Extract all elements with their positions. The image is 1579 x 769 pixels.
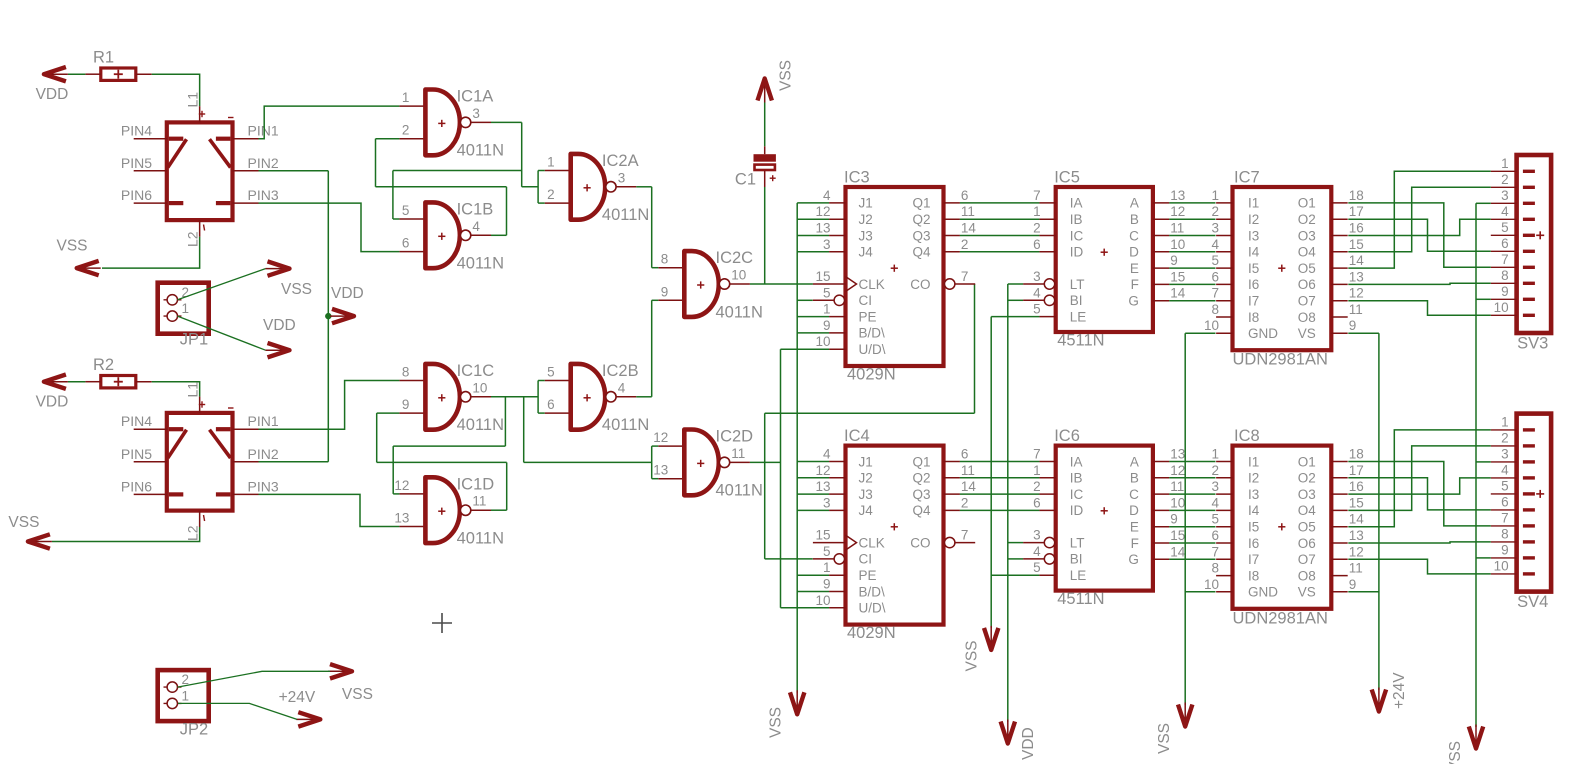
svg-text:I6: I6 [1248, 536, 1259, 551]
svg-text:7: 7 [1211, 544, 1219, 559]
svg-text:I5: I5 [1248, 261, 1259, 276]
supply VSS arrow (upper L2) [57, 238, 101, 276]
junction VDD [325, 313, 331, 319]
svg-text:13: 13 [653, 463, 668, 478]
svg-text:VDD: VDD [263, 317, 296, 334]
svg-text:D: D [1129, 245, 1139, 260]
wire VDD to R1 [68, 73, 85, 75]
svg-text:I1: I1 [1248, 196, 1259, 211]
svg-text:10: 10 [1204, 318, 1219, 333]
wire net IC2B out to IC2C pin9 [636, 300, 658, 397]
supply VSS arrow (above C1) [758, 60, 795, 103]
svg-text:17: 17 [1349, 463, 1364, 478]
svg-text:O2: O2 [1298, 471, 1316, 486]
svg-text:UDN2981AN: UDN2981AN [1233, 351, 1328, 369]
svg-text:12: 12 [394, 478, 409, 493]
svg-text:4029N: 4029N [847, 366, 896, 384]
resistor R1 [85, 48, 151, 80]
supply VSS arrow (lower L2) [8, 514, 52, 549]
svg-text:IC2C: IC2C [716, 249, 754, 267]
svg-text:O4: O4 [1298, 503, 1317, 518]
svg-text:15: 15 [1170, 269, 1185, 284]
svg-text:11: 11 [472, 494, 486, 509]
wire VDD to R2 [68, 381, 85, 383]
svg-text:6: 6 [402, 236, 410, 251]
svg-text:7: 7 [1033, 447, 1041, 462]
svg-text:E: E [1130, 520, 1139, 535]
svg-text:13: 13 [394, 511, 409, 526]
wire JP2 pin2 to VSS [178, 671, 331, 687]
svg-text:16: 16 [1349, 221, 1364, 236]
svg-text:12: 12 [1349, 544, 1364, 559]
svg-text:15: 15 [1349, 237, 1364, 252]
svg-text:L1: L1 [185, 92, 201, 108]
svg-text:IC3: IC3 [844, 169, 870, 187]
svg-text:6: 6 [1033, 495, 1041, 510]
svg-text:O5: O5 [1298, 261, 1316, 276]
svg-text:3: 3 [823, 237, 831, 252]
svg-text:2: 2 [1033, 221, 1041, 236]
svg-text:O1: O1 [1298, 454, 1316, 469]
svg-text:4011N: 4011N [602, 416, 649, 434]
svg-text:4: 4 [618, 380, 626, 395]
svg-text:1: 1 [1501, 414, 1509, 429]
svg-text:4: 4 [1501, 204, 1509, 219]
svg-text:7: 7 [1211, 286, 1219, 301]
svg-text:F: F [1131, 277, 1139, 292]
svg-text:J3: J3 [859, 487, 873, 502]
svg-text:6: 6 [547, 397, 555, 412]
svg-text:D: D [1129, 503, 1139, 518]
wire net GND (IC7/IC8) to VSS [1185, 333, 1215, 705]
svg-text:L1: L1 [185, 382, 201, 398]
svg-text:6: 6 [1211, 269, 1219, 284]
svg-text:ID: ID [1070, 503, 1084, 518]
svg-text:IB: IB [1070, 471, 1083, 486]
connector JP2 [158, 670, 209, 738]
svg-text:1: 1 [823, 560, 831, 575]
svg-text:IC6: IC6 [1054, 427, 1080, 445]
svg-text:2: 2 [1033, 479, 1041, 494]
svg-text:B/D\: B/D\ [859, 326, 886, 341]
svg-text:12: 12 [1170, 204, 1185, 219]
svg-text:U/D\: U/D\ [859, 601, 886, 616]
supply +24V arrow (JP2 pin1) [279, 689, 321, 727]
connector JP1 [158, 283, 209, 349]
svg-text:13: 13 [1349, 269, 1364, 284]
svg-text:4: 4 [1501, 462, 1509, 477]
svg-text:L2: L2 [185, 525, 201, 541]
svg-text:PIN5: PIN5 [121, 446, 152, 462]
svg-text:3: 3 [1501, 446, 1509, 461]
svg-text:9: 9 [823, 577, 831, 592]
wire net LE to VSS [991, 317, 1039, 628]
svg-text:2: 2 [961, 237, 969, 252]
svg-text:IC4: IC4 [844, 427, 870, 445]
svg-text:5: 5 [1501, 220, 1509, 235]
svg-text:PIN2: PIN2 [248, 446, 279, 462]
svg-text:I6: I6 [1248, 277, 1259, 292]
svg-text:I3: I3 [1248, 228, 1259, 243]
svg-text:O2: O2 [1298, 212, 1316, 227]
svg-text:13: 13 [1170, 188, 1185, 203]
svg-text:UDN2981AN: UDN2981AN [1233, 609, 1328, 627]
nand gate IC1A [399, 88, 504, 160]
svg-text:8: 8 [1501, 526, 1509, 541]
svg-text:VSS: VSS [1447, 741, 1464, 764]
svg-text:O4: O4 [1298, 245, 1317, 260]
stepper coil block L1/L2 (lower) [121, 382, 279, 541]
svg-text:J2: J2 [859, 471, 873, 486]
supply VDD arrow (mid) [330, 285, 364, 323]
wire net IC1C out to IC1D pin12, IC2B and IC2D inputs [393, 381, 658, 494]
svg-text:11: 11 [961, 204, 975, 219]
svg-text:4011N: 4011N [716, 303, 763, 321]
svg-text:14: 14 [961, 479, 977, 494]
svg-text:5: 5 [823, 285, 831, 300]
svg-text:6: 6 [1033, 237, 1041, 252]
svg-text:IC2B: IC2B [602, 362, 639, 380]
nand gate IC2C [658, 249, 763, 321]
svg-text:I1: I1 [1248, 454, 1259, 469]
svg-text:8: 8 [1501, 268, 1509, 283]
svg-text:10: 10 [1494, 300, 1509, 315]
svg-text:C: C [1129, 228, 1139, 243]
supply VSS arrow (GND net) [1156, 703, 1192, 755]
svg-text:+24V: +24V [279, 689, 316, 706]
supply VDD arrow (LT/BI net) [1001, 720, 1037, 761]
svg-text:3: 3 [1211, 221, 1219, 236]
svg-text:10: 10 [1204, 577, 1219, 592]
wire lower PIN3 to IC1D pin13 [259, 494, 400, 526]
svg-text:IC5: IC5 [1054, 169, 1080, 187]
svg-text:9: 9 [1170, 512, 1178, 527]
wire net VS (IC7/IC8) to +24V [1348, 333, 1379, 690]
svg-text:JP1: JP1 [180, 331, 208, 349]
svg-text:J4: J4 [859, 245, 874, 260]
svg-text:11: 11 [961, 463, 975, 478]
svg-text:R2: R2 [93, 356, 114, 374]
svg-text:PIN4: PIN4 [121, 123, 152, 139]
svg-text:VSS: VSS [778, 60, 795, 91]
svg-text:6: 6 [1501, 494, 1509, 509]
svg-text:I8: I8 [1248, 568, 1259, 583]
decoder IC6 (4511N) [1023, 427, 1186, 608]
svg-text:18: 18 [1349, 447, 1364, 462]
supply VSS arrow (SV ground net) [1447, 725, 1483, 769]
svg-text:VS: VS [1298, 585, 1316, 600]
svg-text:5: 5 [1211, 512, 1219, 527]
svg-text:Q3: Q3 [912, 228, 930, 243]
svg-text:1: 1 [1033, 204, 1041, 219]
svg-text:IC1A: IC1A [457, 88, 494, 106]
wire R1 to L1 top pin [152, 74, 200, 106]
svg-text:VSS: VSS [964, 640, 981, 671]
svg-text:VSS: VSS [281, 281, 312, 298]
nand gate IC1C [399, 362, 504, 434]
svg-text:4029N: 4029N [847, 624, 896, 642]
svg-text:2: 2 [1211, 463, 1219, 478]
svg-text:CLK: CLK [859, 277, 885, 292]
svg-text:2: 2 [961, 495, 969, 510]
supply VSS arrow (below bus) [768, 690, 805, 738]
nand gate IC2B [545, 362, 650, 434]
connector SV3 [1491, 155, 1551, 353]
svg-text:3: 3 [1033, 269, 1041, 284]
svg-text:15: 15 [815, 269, 830, 284]
svg-text:PE: PE [859, 568, 877, 583]
svg-text:5: 5 [547, 365, 555, 380]
wire IC3 Q1-Q4 to IC5 inputs [960, 203, 1040, 252]
nand gate IC2A [545, 152, 650, 224]
wire net VSS bus (J/PE/BD/CI rows) [797, 203, 829, 693]
wire JP1 pin2 to VSS [178, 269, 266, 300]
svg-text:9: 9 [1501, 284, 1509, 299]
svg-text:LE: LE [1070, 568, 1087, 583]
stepper coil block L1/L2 (upper) [121, 92, 279, 247]
wire net IC1B out to IC1A pin2 [376, 139, 507, 236]
wire lower L2 to VSS [52, 527, 200, 542]
nand gate IC2D [653, 428, 763, 500]
svg-text:10: 10 [731, 268, 746, 283]
svg-text:4011N: 4011N [457, 255, 504, 273]
svg-text:9: 9 [1349, 318, 1357, 333]
svg-text:CI: CI [859, 552, 873, 567]
svg-text:B/D\: B/D\ [859, 584, 886, 599]
svg-text:4: 4 [1033, 544, 1041, 559]
svg-text:3: 3 [1211, 479, 1219, 494]
svg-text:J1: J1 [859, 196, 873, 211]
svg-text:IB: IB [1070, 212, 1083, 227]
connector SV4 [1491, 414, 1551, 611]
svg-text:O7: O7 [1298, 552, 1316, 567]
svg-text:4511N: 4511N [1057, 332, 1104, 350]
svg-text:4011N: 4011N [457, 416, 504, 434]
wire JP1 pin1 to VDD [178, 316, 266, 350]
wire IC4 Q1-Q4 to IC6 inputs [960, 462, 1040, 511]
svg-text:Q3: Q3 [912, 487, 930, 502]
svg-text:13: 13 [1349, 528, 1364, 543]
svg-text:12: 12 [815, 463, 830, 478]
svg-text:I8: I8 [1248, 310, 1259, 325]
svg-text:IA: IA [1070, 196, 1083, 211]
svg-text:O8: O8 [1298, 568, 1316, 583]
svg-text:3: 3 [823, 495, 831, 510]
svg-text:O8: O8 [1298, 310, 1316, 325]
svg-text:4: 4 [823, 447, 831, 462]
svg-text:13: 13 [815, 221, 830, 236]
svg-text:CI: CI [859, 293, 873, 308]
svg-text:9: 9 [402, 397, 410, 412]
svg-text:J1: J1 [859, 454, 873, 469]
svg-text:PIN3: PIN3 [248, 187, 279, 203]
svg-text:4: 4 [472, 219, 480, 234]
svg-text:5: 5 [1211, 253, 1219, 268]
svg-text:PIN3: PIN3 [248, 478, 279, 494]
wire net VSS long vertical to SV pins 3/9 [1476, 203, 1491, 727]
svg-text:8: 8 [402, 365, 410, 380]
svg-text:1: 1 [182, 301, 190, 316]
svg-text:4011N: 4011N [457, 142, 504, 160]
wire net IC1D out to IC1C pin9 [377, 413, 507, 510]
supply +24V arrow (VS net) [1372, 672, 1408, 712]
svg-text:O3: O3 [1298, 487, 1316, 502]
svg-text:4011N: 4011N [457, 530, 504, 548]
svg-text:IC8: IC8 [1234, 427, 1260, 445]
svg-text:A: A [1130, 196, 1139, 211]
wire net LT/BI to VDD [1008, 284, 1023, 722]
svg-text:VDD: VDD [36, 394, 69, 411]
svg-text:6: 6 [1211, 528, 1219, 543]
svg-text:O6: O6 [1298, 536, 1316, 551]
svg-text:PIN4: PIN4 [121, 413, 152, 429]
svg-text:O1: O1 [1298, 196, 1316, 211]
wire IC8 outputs to SV4 [1348, 430, 1491, 574]
svg-text:IC2D: IC2D [716, 428, 754, 446]
svg-text:Q2: Q2 [912, 471, 930, 486]
wire R2 to lower L1 top pin [152, 382, 200, 397]
svg-text:J4: J4 [859, 503, 874, 518]
svg-text:O3: O3 [1298, 228, 1316, 243]
svg-text:O7: O7 [1298, 294, 1316, 309]
svg-text:PIN6: PIN6 [121, 187, 152, 203]
svg-text:Q1: Q1 [912, 454, 930, 469]
svg-text:U/D\: U/D\ [859, 342, 886, 357]
svg-text:1: 1 [182, 688, 190, 703]
svg-text:PIN1: PIN1 [248, 123, 279, 139]
svg-text:9: 9 [1170, 253, 1178, 268]
svg-text:2: 2 [1211, 204, 1219, 219]
svg-text:IC1D: IC1D [457, 475, 495, 493]
svg-text:I2: I2 [1248, 471, 1259, 486]
svg-text:L2: L2 [185, 231, 201, 247]
svg-text:6: 6 [1501, 236, 1509, 251]
svg-text:C1: C1 [735, 170, 756, 188]
svg-text:10: 10 [1494, 558, 1509, 573]
svg-text:7: 7 [1501, 252, 1509, 267]
svg-text:12: 12 [1170, 463, 1185, 478]
svg-text:14: 14 [1170, 286, 1186, 301]
svg-text:9: 9 [823, 318, 831, 333]
svg-text:15: 15 [815, 528, 830, 543]
svg-text:ID: ID [1070, 245, 1084, 260]
svg-text:Q4: Q4 [912, 245, 931, 260]
svg-text:1: 1 [1501, 156, 1509, 171]
svg-text:10: 10 [815, 334, 830, 349]
svg-text:CO: CO [910, 277, 930, 292]
svg-text:4: 4 [1033, 285, 1041, 300]
svg-text:9: 9 [1349, 577, 1357, 592]
svg-text:I7: I7 [1248, 552, 1259, 567]
svg-text:IC: IC [1070, 487, 1084, 502]
svg-text:9: 9 [1501, 542, 1509, 557]
svg-text:10: 10 [1170, 495, 1185, 510]
resistor R2 [85, 356, 151, 388]
driver IC8 (UDN2981AN) [1204, 427, 1364, 627]
svg-text:LT: LT [1070, 535, 1085, 550]
svg-text:IC2A: IC2A [602, 152, 639, 170]
svg-text:8: 8 [1211, 302, 1219, 317]
svg-text:14: 14 [1349, 253, 1365, 268]
svg-text:12: 12 [653, 430, 668, 445]
wire net IC2D out to U/D inputs [750, 349, 829, 608]
svg-text:10: 10 [815, 593, 830, 608]
svg-text:I4: I4 [1248, 503, 1260, 518]
svg-text:BI: BI [1070, 293, 1083, 308]
svg-text:1: 1 [823, 302, 831, 317]
svg-text:4: 4 [1211, 495, 1219, 510]
svg-text:B: B [1130, 471, 1139, 486]
svg-text:7: 7 [1501, 510, 1509, 525]
svg-text:Q2: Q2 [912, 212, 930, 227]
svg-text:10: 10 [1170, 237, 1185, 252]
svg-text:2: 2 [402, 123, 410, 138]
svg-text:18: 18 [1349, 188, 1364, 203]
svg-text:13: 13 [815, 479, 830, 494]
svg-text:J2: J2 [859, 212, 873, 227]
svg-text:3: 3 [1033, 528, 1041, 543]
svg-text:4511N: 4511N [1057, 590, 1104, 608]
svg-text:I3: I3 [1248, 487, 1259, 502]
svg-text:3: 3 [1501, 188, 1509, 203]
svg-text:3: 3 [618, 170, 626, 185]
wire lower PIN1 to IC1C pin8 [259, 381, 400, 430]
supply VSS arrow (JP2 pin2) [328, 664, 373, 703]
sheet origin cross [432, 622, 452, 624]
svg-text:7: 7 [961, 528, 969, 543]
svg-text:8: 8 [661, 252, 669, 267]
svg-text:5: 5 [402, 203, 410, 218]
svg-text:1: 1 [1033, 463, 1041, 478]
svg-text:Q4: Q4 [912, 503, 931, 518]
wire upper PIN3 to IC1B pin6 [259, 203, 400, 252]
svg-text:16: 16 [1349, 479, 1364, 494]
svg-text:VDD: VDD [331, 285, 364, 302]
wire IC5 A-G to IC7 inputs [1169, 203, 1215, 301]
svg-text:E: E [1130, 261, 1139, 276]
svg-text:+24V: +24V [1391, 672, 1408, 709]
capacitor C1 [735, 146, 776, 188]
svg-text:IC7: IC7 [1234, 169, 1260, 187]
svg-text:I7: I7 [1248, 294, 1259, 309]
supply VDD arrow (JP1 pin1) [263, 317, 296, 357]
svg-text:14: 14 [1349, 512, 1365, 527]
svg-text:1: 1 [402, 90, 410, 105]
svg-text:11: 11 [1349, 302, 1363, 317]
svg-text:2: 2 [1501, 430, 1509, 445]
svg-text:9: 9 [661, 284, 669, 299]
svg-text:12: 12 [1349, 286, 1364, 301]
svg-text:JP2: JP2 [180, 721, 208, 739]
wire net VDD vertical (PIN2 rows) [259, 171, 329, 462]
svg-text:LT: LT [1070, 277, 1085, 292]
svg-text:O6: O6 [1298, 277, 1316, 292]
svg-text:J3: J3 [859, 228, 873, 243]
svg-text:11: 11 [1349, 561, 1363, 576]
svg-text:2: 2 [547, 187, 555, 202]
svg-text:14: 14 [961, 221, 977, 236]
svg-text:IC: IC [1070, 228, 1084, 243]
nand gate IC1D [394, 475, 504, 547]
svg-text:5: 5 [1501, 478, 1509, 493]
svg-text:14: 14 [1170, 544, 1186, 559]
svg-text:R1: R1 [93, 48, 114, 66]
svg-text:Q1: Q1 [912, 196, 930, 211]
wire IC7 outputs to SV3 [1348, 171, 1491, 315]
svg-text:LE: LE [1070, 309, 1087, 324]
svg-text:10: 10 [472, 380, 487, 395]
svg-text:PIN5: PIN5 [121, 155, 152, 171]
